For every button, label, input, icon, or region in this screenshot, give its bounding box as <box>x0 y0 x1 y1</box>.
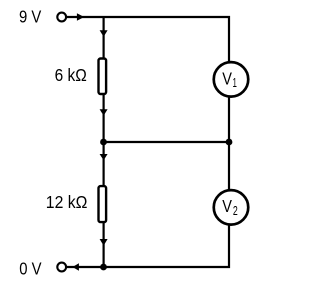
svg-text:12 kΩ: 12 kΩ <box>46 192 88 212</box>
svg-text:6 kΩ: 6 kΩ <box>55 65 87 85</box>
svg-text:V: V <box>222 69 232 89</box>
svg-text:2: 2 <box>233 203 238 218</box>
svg-text:1: 1 <box>233 75 237 90</box>
svg-text:0 V: 0 V <box>19 258 42 278</box>
svg-text:9 V: 9 V <box>19 7 42 27</box>
svg-text:V: V <box>222 196 232 216</box>
